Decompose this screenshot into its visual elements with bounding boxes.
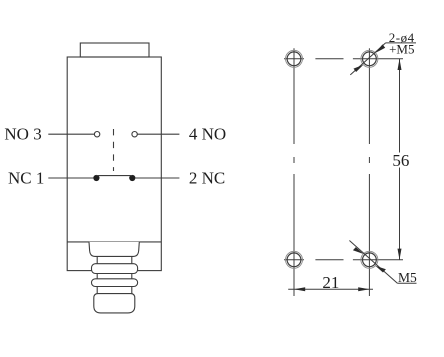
svg-text:M5: M5 [398,270,417,285]
svg-text:2 NC: 2 NC [189,169,225,188]
svg-text:56: 56 [392,151,409,170]
svg-text:NC 1: NC 1 [8,169,44,188]
svg-text:4 NO: 4 NO [189,125,226,144]
svg-text:+M5: +M5 [389,42,414,57]
svg-text:21: 21 [322,273,339,292]
svg-text:NO 3: NO 3 [4,125,41,144]
